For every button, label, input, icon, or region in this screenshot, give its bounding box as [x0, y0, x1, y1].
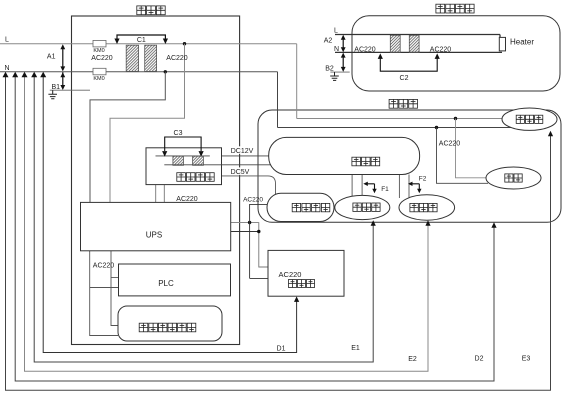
label F2 — [419, 176, 427, 183]
label D1 — [277, 345, 286, 352]
svg-text:AC220: AC220 — [430, 47, 452, 54]
dimension arrow B1 (N to ground) — [60, 72, 65, 90]
heater element — [499, 37, 505, 51]
label A2 — [324, 38, 333, 45]
wire UPS right output upper — [231, 221, 259, 224]
thermometer ellipse 体温计 — [335, 195, 390, 219]
node junction on N at x165.3 — [164, 70, 167, 73]
wire UPS bottom to PLC (inner) — [111, 251, 119, 326]
label AC220 tank right — [430, 47, 452, 54]
svg-text:F2: F2 — [419, 176, 427, 183]
svg-text:D1: D1 — [277, 345, 286, 352]
label N (mains) — [4, 65, 9, 72]
svg-text:L: L — [334, 28, 338, 35]
svg-text:E2: E2 — [408, 356, 417, 363]
wire from N end down to heating-bed feed (lower) — [278, 72, 513, 128]
wire DC5V line to door motor — [222, 176, 276, 197]
wire control-box to thermometer pair — [352, 175, 362, 198]
wire bus E2 — [22, 72, 431, 371]
wire bus E3 — [3, 72, 554, 390]
svg-text:AC220: AC220 — [354, 47, 376, 54]
svg-text:D2: D2 — [475, 356, 484, 363]
heating bed ellipse 加热床 — [502, 108, 557, 130]
node junction on L at x184.5 — [183, 42, 186, 45]
wire UPS right output lower — [231, 230, 261, 233]
breaker KM0 on N line — [93, 68, 106, 82]
label AC220 above UPS — [176, 196, 198, 203]
label 开关电源 — [177, 173, 214, 182]
wire L to UPS — [110, 44, 185, 204]
label 恒温水槽 — [436, 4, 474, 13]
svg-text:L: L — [5, 37, 9, 44]
dimension arrow B2 — [341, 53, 346, 72]
transformer C1 hatched winding 1 — [126, 45, 138, 71]
console box 控制台 — [268, 250, 344, 296]
planning system computer box 计划系统电脑 — [118, 306, 222, 341]
node junction upper feed x455 — [454, 117, 457, 120]
svg-text:AC220: AC220 — [439, 141, 461, 148]
node junction lower feed x436 — [435, 126, 438, 129]
svg-text:A1: A1 — [47, 54, 56, 61]
wire bus E1 — [31, 72, 376, 362]
control box 控制盒 — [269, 137, 420, 174]
wire AC220 riser to door motor and console — [250, 204, 269, 278]
svg-text:UPS: UPS — [146, 231, 162, 240]
svg-text:DC12V: DC12V — [231, 148, 254, 155]
label B1 — [52, 84, 61, 91]
dimension arrow A2 — [341, 35, 346, 53]
wire UPS bottom to computer (outer) — [90, 251, 119, 336]
label DC12V — [228, 146, 256, 155]
label C3 — [174, 130, 183, 137]
label B2 — [325, 66, 334, 73]
wire control-box to oximeter pair — [399, 175, 409, 200]
dimension arrow A1 (L to N spacing) — [60, 44, 65, 71]
svg-text:F1: F1 — [381, 186, 389, 193]
pointer F2 — [408, 182, 422, 194]
svg-text:B1: B1 — [52, 84, 61, 91]
label C2 — [400, 75, 409, 82]
wire to lampbox upper — [456, 119, 489, 178]
svg-text:B2: B2 — [325, 66, 334, 73]
transformer C1 hatched winding 2 — [145, 45, 157, 71]
breaker KM0 on L line — [93, 40, 106, 54]
wire from L end down to heating-bed feed (upper) — [297, 44, 505, 119]
svg-text:C3: C3 — [174, 130, 183, 137]
label AC220 right of C1 — [166, 55, 188, 62]
svg-text:AC220: AC220 — [279, 270, 302, 279]
heating chamber box 加热舱 — [258, 110, 561, 222]
label E1 — [351, 345, 360, 352]
svg-text:KM0: KM0 — [93, 76, 104, 82]
ground symbol E1 area — [48, 90, 57, 99]
svg-text:Heater: Heater — [510, 38, 534, 47]
wire N to UPS — [90, 72, 165, 204]
svg-text:E1: E1 — [351, 345, 360, 352]
wire DC12V line to control box — [156, 155, 291, 157]
svg-text:PLC: PLC — [158, 279, 174, 288]
wire inner low line to door motor — [164, 164, 273, 166]
switching power supply box 开关电源 — [146, 148, 222, 185]
svg-text:AC220: AC220 — [93, 262, 115, 269]
door motor box 开仓电机 — [267, 193, 334, 221]
label C1 — [137, 37, 146, 44]
wire tank L line — [335, 35, 500, 38]
svg-text:AC220: AC220 — [243, 196, 263, 203]
label N tank — [334, 46, 339, 53]
transformer C2 hatched winding 2 — [409, 35, 419, 52]
wire bus D1 — [40, 72, 299, 353]
wire chamber shell to console — [259, 222, 269, 267]
wire to lampbox lower — [437, 128, 489, 184]
wire bus D2 — [12, 72, 496, 381]
svg-text:AC220: AC220 — [91, 55, 113, 62]
ground symbol tank — [330, 72, 339, 80]
svg-text:KM0: KM0 — [93, 48, 104, 54]
label D2 — [475, 356, 484, 363]
measurement bracket C2 — [378, 53, 440, 71]
svg-text:E3: E3 — [522, 356, 531, 363]
C3 windings inside switching supply — [156, 156, 222, 165]
label A1 — [47, 54, 56, 61]
label AC220 above PLC — [93, 262, 115, 269]
svg-text:A2: A2 — [324, 38, 333, 45]
svg-text:C2: C2 — [400, 75, 409, 82]
svg-text:N: N — [334, 46, 339, 53]
wire L line — [0, 43, 297, 45]
label F1 — [381, 186, 389, 193]
transformer C2 hatched winding 1 — [390, 35, 400, 52]
label E3 — [522, 356, 531, 363]
label AC220 tank left — [354, 47, 376, 54]
pointer F1 — [363, 182, 376, 194]
label Heater — [510, 38, 534, 47]
label 电源柜 — [133, 5, 169, 16]
UPS box — [81, 202, 231, 250]
label AC220 left of C1 — [91, 55, 113, 62]
measurement bracket C1 — [114, 35, 168, 44]
svg-text:DC5V: DC5V — [231, 169, 250, 176]
power cabinet box 电源柜 — [72, 16, 240, 345]
wire ground bus at cabinet entry — [50, 89, 90, 91]
label L tank — [334, 28, 338, 35]
label 加热舱 — [386, 99, 420, 110]
lamp box ellipse 灯箱 — [486, 167, 541, 189]
wire tank N line — [335, 51, 502, 53]
PLC box — [119, 264, 231, 296]
measurement bracket C3 — [162, 137, 204, 157]
label DC5V — [229, 167, 251, 176]
svg-text:C1: C1 — [137, 37, 146, 44]
label AC220 chamber feed — [439, 141, 461, 148]
label AC220 at door motor feed — [243, 196, 263, 203]
svg-text:N: N — [4, 65, 9, 72]
constant-temperature water tank box 恒温水槽 — [352, 16, 560, 91]
wire switching-supply to UPS pair — [156, 156, 165, 204]
label L (mains) — [5, 37, 9, 44]
label E2 — [408, 356, 417, 363]
wire tank ground line — [330, 71, 349, 73]
oximeter ellipse 血氧计 — [399, 195, 455, 220]
svg-text:AC220: AC220 — [166, 55, 188, 62]
wire N line — [0, 71, 278, 73]
